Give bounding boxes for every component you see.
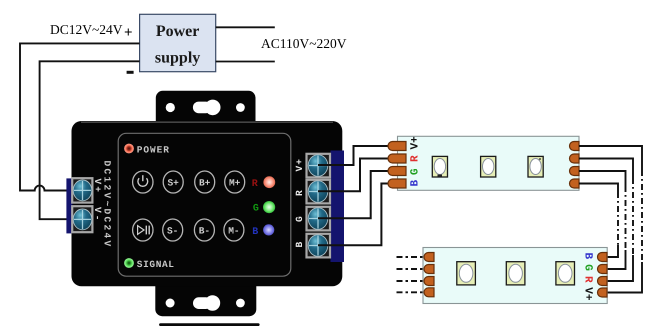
strip2 left dashed stub G: [397, 280, 424, 282]
strip2 right pad R: [598, 277, 607, 286]
svg-text:G: G: [294, 216, 305, 222]
top tab keyhole slot: [193, 102, 212, 114]
right terminal screw V+: [308, 155, 328, 177]
svg-text:SIGNAL: SIGNAL: [137, 259, 175, 270]
svg-text:B+: B+: [199, 178, 211, 189]
strip1 LED chip D2: [481, 156, 496, 177]
wire R controller to strip1: [318, 159, 390, 192]
top tab hole right: [236, 103, 245, 112]
wire AC live: [216, 26, 275, 28]
button S+ SW2: [163, 171, 183, 193]
LED strip 2 body: [423, 248, 607, 304]
svg-text:V+: V+: [410, 136, 422, 150]
right terminal screw G: [308, 208, 328, 230]
controller bottom mounting tab: [155, 285, 256, 316]
svg-text:DC12V~24V: DC12V~24V: [50, 22, 123, 37]
indicator LED B: [263, 224, 274, 235]
svg-text:DC12V~DC24V: DC12V~DC24V: [102, 161, 113, 249]
indicator LED G: [263, 201, 275, 213]
svg-text:V+: V+: [92, 179, 103, 194]
LED strip 1 body: [398, 136, 580, 190]
top tab hole left: [166, 103, 175, 112]
button play/pause SW5: [133, 219, 153, 241]
strip1 left pad G: [388, 167, 406, 176]
wire B strip1 to strip2: [579, 184, 618, 258]
strip2 left pad 1: [424, 253, 434, 262]
indicator LED R: [263, 176, 275, 188]
bottom tab hole left: [166, 299, 175, 308]
button power SW1: [133, 171, 153, 193]
strip2 LED chip D6: [556, 262, 575, 285]
bottom tab shadow bar: [159, 323, 260, 326]
bottom tab hole right: [236, 299, 245, 308]
button B+ SW3: [195, 171, 215, 193]
svg-text:G: G: [410, 168, 422, 175]
svg-text:V-: V-: [92, 207, 103, 222]
wire G strip1 to strip2: [579, 171, 626, 269]
controller inner panel outline: [118, 133, 291, 276]
wire G controller to strip1: [318, 171, 390, 218]
svg-text:G: G: [582, 264, 594, 271]
wire AC neutral: [216, 61, 275, 63]
right terminal body V+: [307, 154, 331, 178]
svg-text:B-: B-: [199, 226, 210, 237]
right terminal body G: [307, 207, 331, 231]
svg-text:+: +: [124, 25, 133, 41]
strip1 right pad V+: [570, 142, 580, 151]
bottom tab keyhole slot: [193, 297, 212, 309]
svg-text:B: B: [582, 253, 594, 260]
strip1 left pad R: [388, 154, 406, 163]
strip2 left pad 4: [424, 288, 434, 297]
svg-text:B: B: [294, 242, 305, 248]
left terminal screw V+: [73, 180, 92, 201]
wire DC+ from power supply to V+ terminal (with hop): [20, 43, 140, 190]
right terminal block base: [331, 151, 345, 263]
right terminal body B: [307, 234, 331, 258]
left terminal body V-: [72, 206, 92, 232]
strip1 LED chip D3: [528, 156, 543, 177]
button B- SW7: [194, 219, 214, 241]
svg-text:R: R: [252, 179, 258, 190]
svg-text:M-: M-: [228, 226, 239, 237]
svg-text:S+: S+: [167, 178, 179, 189]
wire B controller to strip1: [318, 184, 390, 246]
right terminal screw R: [308, 181, 328, 203]
svg-text:B: B: [410, 180, 422, 187]
strip1 left pad V+: [388, 142, 406, 151]
right terminal body R: [307, 180, 331, 204]
svg-text:supply: supply: [155, 50, 200, 67]
svg-text:R: R: [294, 190, 305, 196]
strip2 left pad 2: [424, 265, 434, 274]
svg-text:POWER: POWER: [137, 144, 170, 155]
strip1 right pad G: [570, 167, 580, 176]
wire R strip1 to strip2: [579, 159, 633, 282]
svg-text:B: B: [252, 227, 258, 238]
strip2 left dashed stub R: [397, 268, 424, 270]
button S- SW6: [163, 219, 183, 241]
power supply PS1: [140, 14, 216, 71]
strip2 left dashed stub B: [397, 291, 424, 293]
strip1 LED chip D1: [432, 156, 447, 177]
wire V+ strip1 to strip2 (solid-dashdot-solid): [579, 146, 642, 293]
button M- SW8: [224, 219, 244, 241]
svg-text:S-: S-: [167, 226, 178, 237]
strip2 right pad G: [598, 265, 607, 274]
controller U1 body: [72, 121, 343, 286]
right terminal screw B: [308, 235, 328, 257]
strip2 left pad 3: [424, 277, 434, 286]
button M+ SW4: [225, 171, 245, 193]
strip1 right pad R: [570, 154, 580, 163]
left terminal block base: [66, 178, 72, 233]
wire DC- from power supply to V- terminal: [40, 61, 140, 219]
strip1 left pad B: [388, 179, 406, 188]
svg-text:Power: Power: [156, 23, 200, 40]
svg-text:AC110V~220V: AC110V~220V: [261, 36, 347, 51]
svg-text:R: R: [410, 155, 422, 162]
left terminal body V+: [72, 178, 92, 202]
svg-text:R: R: [582, 276, 594, 283]
strip2 right pad V+: [598, 288, 607, 297]
svg-text:G: G: [253, 204, 259, 215]
controller top edge highlight: [81, 121, 333, 123]
svg-text:M+: M+: [229, 178, 241, 189]
svg-text:V+: V+: [294, 158, 305, 171]
label -: [127, 71, 134, 74]
POWER indicator LED: [124, 144, 134, 154]
controller top mounting tab: [156, 91, 256, 122]
left terminal screw V-: [73, 209, 92, 230]
SIGNAL indicator LED: [124, 258, 134, 268]
strip1 right pad B: [570, 179, 580, 188]
strip2 LED chip D5: [506, 262, 525, 285]
strip2 right pad B: [598, 253, 607, 262]
svg-text:V+: V+: [582, 287, 594, 301]
strip2 left dashed stub V+: [397, 256, 424, 258]
strip2 LED chip D4: [457, 262, 476, 285]
wire V+ controller to strip1: [318, 146, 390, 165]
